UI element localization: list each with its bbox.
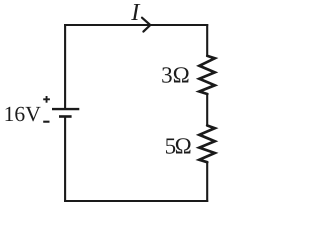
svg-text:I: I bbox=[130, 0, 141, 26]
svg-text:16V: 16V bbox=[4, 102, 42, 126]
svg-text:5Ω: 5Ω bbox=[165, 133, 191, 158]
wire bottom horizontal bbox=[64, 200, 208, 202]
resistor R1 3ohm zigzag bbox=[199, 56, 215, 94]
wire left vertical upper (top plate to top-left corner) bbox=[64, 24, 66, 109]
resistor R2 5ohm zigzag bbox=[199, 126, 215, 163]
svg-text:3Ω: 3Ω bbox=[161, 62, 190, 87]
wire right vertical upper (top-right corner to R1) bbox=[206, 24, 208, 57]
wire left vertical lower (bottom plate to bottom-left corner) bbox=[64, 117, 66, 202]
wire right vertical middle (R1 to R2) bbox=[206, 93, 208, 126]
battery minus sign bbox=[43, 121, 49, 123]
wire right vertical bottom (R2 to bottom-right corner) bbox=[206, 162, 208, 202]
wire top horizontal bbox=[64, 24, 208, 26]
battery plus sign bbox=[43, 96, 50, 103]
battery V1 16V plates bbox=[52, 109, 79, 116]
current arrow head bbox=[142, 18, 150, 32]
